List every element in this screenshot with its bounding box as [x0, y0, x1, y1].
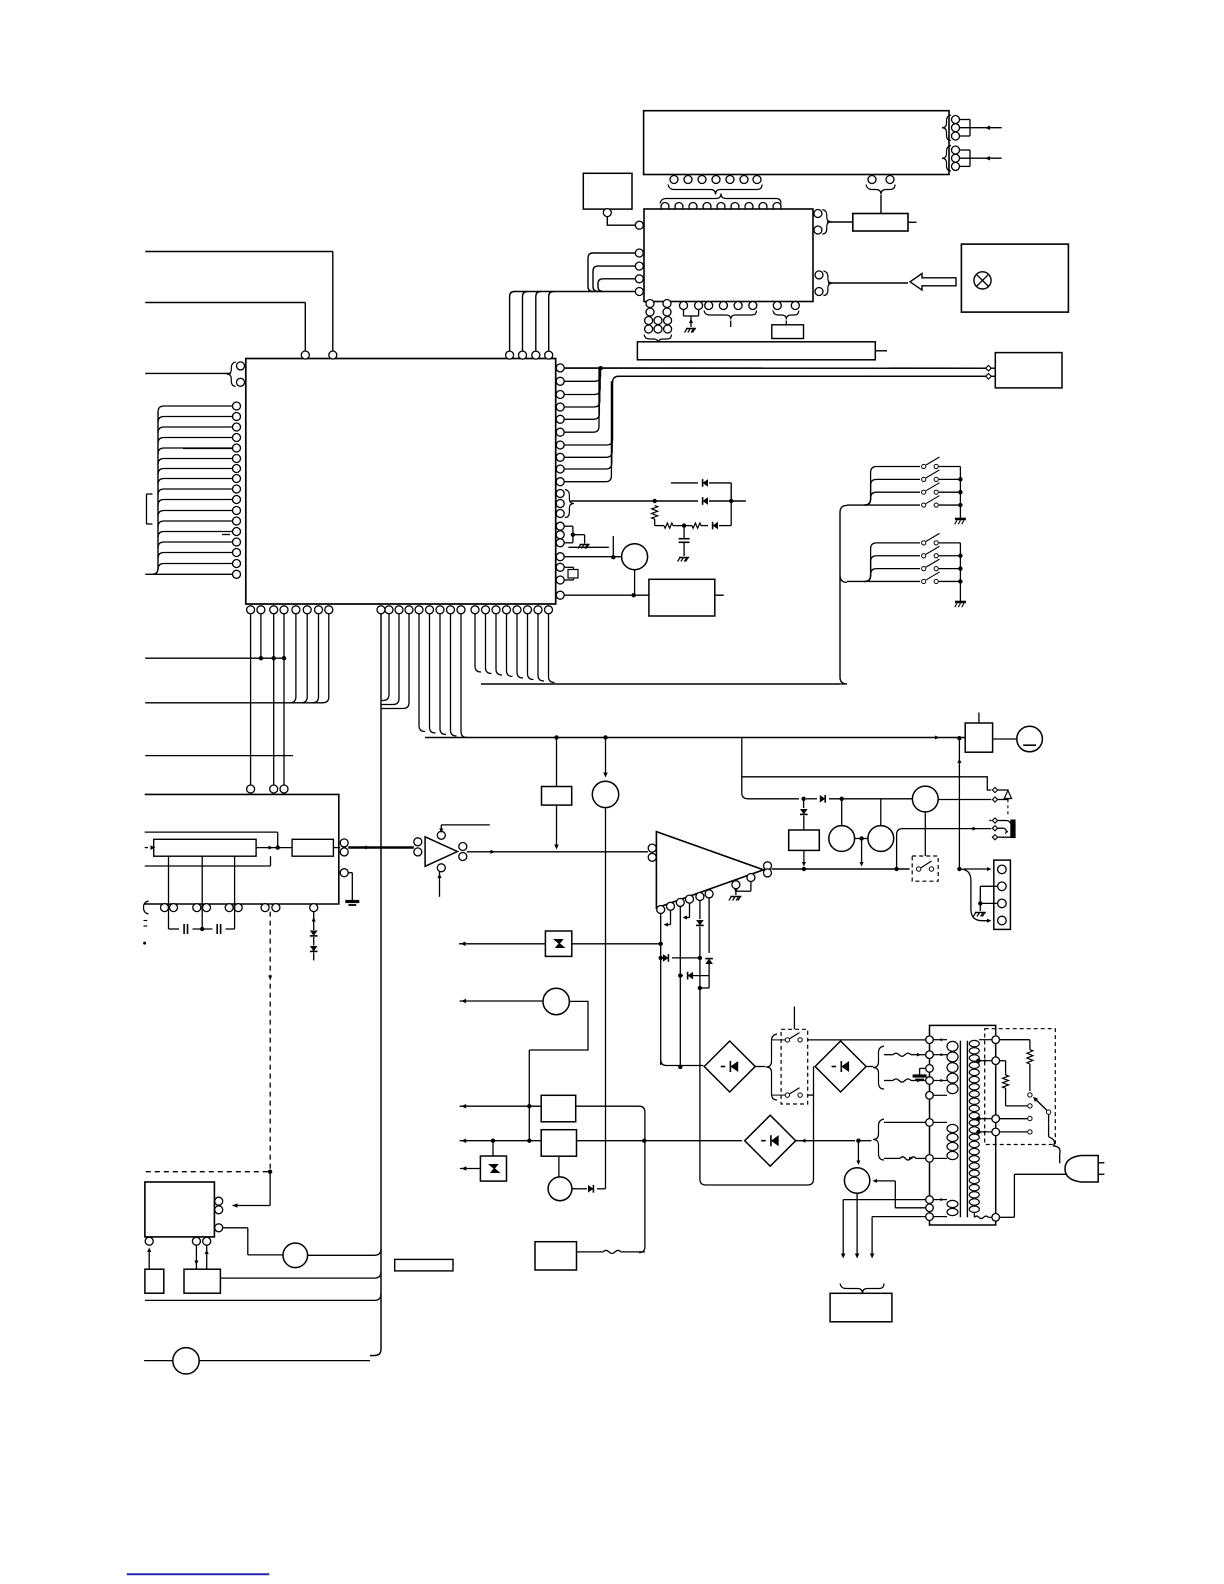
remote sensor arrow	[910, 274, 956, 291]
core lines	[959, 1041, 961, 1218]
bridge diamond 2	[815, 1041, 866, 1092]
key switch bank 2	[877, 542, 920, 544]
AC cord box	[830, 1293, 892, 1322]
box4 top pins	[247, 785, 255, 793]
cap Ck	[880, 799, 882, 826]
buffer out pins	[459, 843, 467, 851]
box5 pin3 path	[223, 1227, 248, 1229]
rail arrows	[460, 1105, 542, 1107]
secondary bottom	[973, 1213, 975, 1218]
diode net feed	[571, 500, 655, 502]
footer blue line	[127, 1573, 269, 1575]
jack line2	[938, 799, 991, 801]
stub line 658	[145, 657, 285, 659]
line to IC1 top pin A	[145, 251, 333, 253]
buffer top pin	[437, 831, 445, 839]
IC2 left pin 1	[635, 221, 643, 229]
Cg lower vertical	[605, 808, 607, 1189]
L1 arrowhead	[935, 735, 940, 739]
Cc path vertical	[528, 1050, 530, 1141]
IC1 bottom bus to banks	[840, 683, 845, 685]
opamp feed corner	[661, 1060, 704, 1066]
jack contacts	[992, 787, 997, 792]
diode net bottom branch	[654, 519, 656, 525]
IC1 left pins	[233, 402, 241, 410]
selector r1	[1000, 1039, 1030, 1041]
cap stub	[612, 536, 614, 557]
box Ba	[583, 173, 632, 209]
line to IC1 top pin B	[145, 302, 305, 304]
tuner block box	[644, 111, 949, 175]
secondary coil	[969, 1040, 979, 1046]
box2 power connector	[995, 353, 1062, 388]
IC2 bottom pins group2	[680, 302, 688, 310]
primary line bottom	[808, 1094, 814, 1096]
box Bb	[772, 325, 804, 339]
pin verticals to box4	[250, 614, 252, 785]
connector bypass	[959, 869, 988, 921]
AC cord brace	[840, 1284, 884, 1294]
box7	[145, 1269, 164, 1293]
diamond2 right brace	[866, 1066, 873, 1068]
selector dashed box	[985, 1029, 1056, 1145]
opamp gnd pins	[735, 889, 737, 895]
Ba output pin	[603, 209, 611, 217]
DC jack box	[965, 723, 992, 752]
circle Cd	[548, 1177, 572, 1201]
selector arm	[1046, 1110, 1050, 1114]
bus684 harness	[475, 614, 481, 672]
mute switch	[917, 867, 921, 871]
Z2 box	[480, 1156, 506, 1181]
diode line 976	[680, 975, 683, 977]
box4 bottom brace	[144, 901, 149, 914]
display box with lamp	[961, 244, 1068, 312]
bridge feed line	[600, 1140, 742, 1142]
Cg feed	[603, 735, 607, 739]
box4 bottom pins	[161, 904, 169, 912]
brace under tuner pins	[668, 185, 762, 195]
tuner AGC pins	[868, 176, 876, 184]
xfmr pin9 line	[895, 1207, 925, 1209]
Ci lower lead	[634, 570, 636, 596]
cap net verticals	[168, 856, 170, 929]
brace under group1	[644, 335, 672, 344]
circle Cg	[592, 781, 618, 807]
long vertical V	[380, 614, 382, 1349]
box9	[541, 1095, 576, 1122]
IC1 bottom pins mid	[377, 606, 385, 614]
IC1 right group A harness	[564, 368, 600, 381]
relay contact 2	[785, 1093, 789, 1097]
resistor vert	[652, 506, 658, 520]
box6 out line	[220, 1272, 381, 1279]
rail2	[460, 1140, 479, 1142]
IF block top pins	[661, 203, 669, 211]
bus L1 harness	[419, 614, 425, 732]
bus to IC1 top	[514, 291, 588, 293]
circle Cc	[460, 1000, 544, 1002]
bold audio line	[348, 846, 414, 849]
box6 arrows	[195, 1245, 197, 1269]
pin2 vertical	[260, 614, 262, 658]
IC1 top pins	[301, 351, 309, 359]
line 1300	[145, 1294, 381, 1301]
feedback line	[145, 831, 278, 833]
secondary line 1	[884, 1121, 926, 1123]
box10	[541, 1130, 576, 1157]
relay dashed box	[781, 1029, 808, 1104]
pins 5-8 harness	[290, 614, 296, 703]
U-path to diamond2	[699, 1137, 701, 1180]
switch bank bus	[840, 505, 847, 684]
IC1 system control MCU	[246, 359, 556, 605]
circle Ca	[283, 1243, 308, 1268]
box11	[535, 1242, 577, 1270]
pin3 vertical	[679, 906, 681, 1067]
connector 4pin	[994, 860, 1011, 929]
box4 right wire	[333, 847, 340, 849]
IC1 right pin osc1	[556, 553, 564, 561]
primary coil 2	[933, 1121, 947, 1123]
cap pair junction	[855, 838, 868, 840]
dashed mute box	[912, 856, 938, 881]
IC2 bottom pins group1	[646, 300, 654, 308]
box3 reset ic	[649, 579, 715, 616]
buffer bottom pin	[437, 864, 445, 872]
capacitor to gnd	[683, 526, 685, 539]
V1 vertical	[957, 736, 961, 740]
selector c3	[1000, 1118, 1028, 1120]
primary line top	[808, 1039, 926, 1041]
Z0 box	[556, 738, 558, 787]
tertiary coil	[933, 1199, 947, 1201]
Z1 box	[545, 931, 571, 956]
pin6 vertical	[708, 898, 710, 953]
circle Ci	[622, 544, 648, 570]
audio output line	[772, 868, 910, 870]
monitor circle	[912, 786, 938, 812]
IC2 left pin harness	[588, 253, 635, 292]
bridge diamond 3	[745, 1115, 796, 1166]
IC1 right pin wire 1	[564, 367, 985, 369]
IC2 bottom pins group4	[773, 302, 781, 310]
relay brace	[766, 1034, 777, 1100]
IC1 left brace pins	[237, 362, 245, 370]
IC1 right pin reset	[556, 591, 564, 599]
line to connector	[964, 868, 990, 870]
op-amp power amp	[656, 832, 763, 908]
IC1 right group B harness	[564, 381, 612, 445]
stray dash A	[183, 448, 232, 450]
diamond3 out	[796, 1140, 855, 1142]
IC1 left harness	[157, 412, 159, 568]
diode D-mid	[653, 499, 657, 503]
AC plug	[1065, 1156, 1098, 1183]
arrow to box5	[269, 1172, 271, 1206]
box5 deck control	[145, 1182, 215, 1237]
secondary line 2	[884, 1157, 900, 1159]
stray dash B	[222, 534, 230, 536]
line 799	[742, 738, 799, 799]
wire to box2 pin1	[565, 367, 986, 369]
tuner right pin group 1	[952, 116, 960, 124]
transformer right pins	[992, 1036, 1000, 1044]
cap net line	[169, 928, 180, 930]
box5 right pins	[215, 1197, 223, 1205]
transformer left pins	[926, 1036, 934, 1044]
line2 across	[577, 1140, 601, 1142]
IC1 right brace pins	[556, 490, 564, 498]
monitor to switch	[924, 812, 926, 856]
line 777 jack	[742, 737, 745, 739]
key switch bank 1	[877, 466, 920, 468]
box4 gnd	[340, 869, 348, 877]
arrow into inner box	[145, 847, 148, 849]
selector r2	[1000, 1060, 1006, 1062]
pin4 jog	[689, 903, 691, 917]
jack lower contacts	[991, 820, 995, 822]
IC2 left pins 2-5	[635, 249, 643, 257]
fuse circle feed	[857, 1141, 859, 1161]
transformer outline	[930, 1025, 996, 1225]
box4 cassette mech block	[145, 794, 339, 904]
op-amp slope pins	[657, 906, 665, 914]
primary squiggle 2	[884, 1080, 893, 1082]
pin1 vertical	[660, 914, 662, 1066]
dashed service line	[269, 912, 271, 1172]
audio line to opamp	[467, 851, 648, 853]
IC1 bottom pins left	[247, 606, 255, 614]
IC2 right pins A	[814, 210, 822, 218]
box6	[184, 1269, 220, 1293]
mid pin merge elbows	[381, 614, 389, 701]
box4 out pins	[340, 839, 348, 847]
lamp symbol	[974, 272, 991, 289]
selector c4	[1000, 1131, 1028, 1133]
bus 684	[481, 683, 840, 685]
IC2 right pins B	[815, 271, 823, 279]
IC1 right pins mid	[556, 522, 564, 530]
battery circle	[1017, 726, 1043, 752]
buffer triangle	[425, 837, 457, 867]
diamond1 out	[755, 1066, 765, 1068]
brace over IF pins	[660, 194, 781, 204]
zener pair	[313, 912, 315, 930]
mid pin bracket	[564, 525, 573, 527]
buffer in pins	[414, 838, 422, 846]
resistor Rb	[292, 839, 333, 856]
xfmr gnd tap	[920, 1067, 926, 1069]
op-amp out pins	[764, 862, 772, 870]
IC2 bottom pins group3	[705, 302, 713, 310]
headphone feed	[897, 829, 992, 869]
stub line 756	[145, 755, 293, 757]
connector gnd	[980, 885, 998, 887]
primary squiggle 1	[884, 1054, 893, 1056]
IC2 IF/decoder block	[644, 209, 813, 302]
box5 bottom pins	[145, 1237, 153, 1245]
pin2 jog	[670, 910, 672, 924]
tuner right pin group 2	[952, 146, 960, 154]
IC1 right pins upper	[556, 364, 564, 372]
inner to resistor	[256, 847, 292, 849]
resistor R-AGC	[853, 214, 908, 232]
box4 inner box	[154, 839, 256, 856]
primary coil 1	[933, 1039, 947, 1041]
fuse circle Cf	[844, 1168, 869, 1193]
tuner bottom pins	[670, 176, 678, 184]
cap Cj	[841, 799, 843, 826]
small label box8	[395, 1259, 453, 1271]
antenna lead 1	[960, 127, 1002, 129]
label bracket left	[146, 494, 148, 524]
relay coil box	[789, 830, 820, 850]
IC1 xtal pins	[556, 563, 564, 571]
left glyph bits	[144, 920, 148, 922]
relay coil branch	[801, 797, 805, 801]
diode net top branch	[671, 482, 698, 484]
circle Cb line	[144, 1360, 173, 1362]
plug return	[1014, 1173, 1066, 1175]
bridge diamond 1	[704, 1041, 755, 1092]
stray line	[568, 546, 608, 548]
xfmr pin8 line	[843, 1199, 925, 1201]
xfmr pin10 line	[872, 1216, 925, 1218]
relay contact 1	[785, 1038, 789, 1042]
bus L1	[425, 737, 965, 739]
pin5 vertical	[699, 901, 701, 920]
long box Bc	[637, 342, 875, 360]
secondary brace	[873, 1119, 884, 1160]
wire to box2 pin2	[617, 375, 986, 377]
antenna lead 2	[960, 157, 1002, 159]
left stub into box4	[145, 865, 271, 867]
secondary taps	[976, 1059, 980, 1063]
box10 to Cd	[558, 1156, 560, 1177]
op-amp in pins	[648, 844, 656, 852]
diode line 958	[663, 954, 668, 962]
